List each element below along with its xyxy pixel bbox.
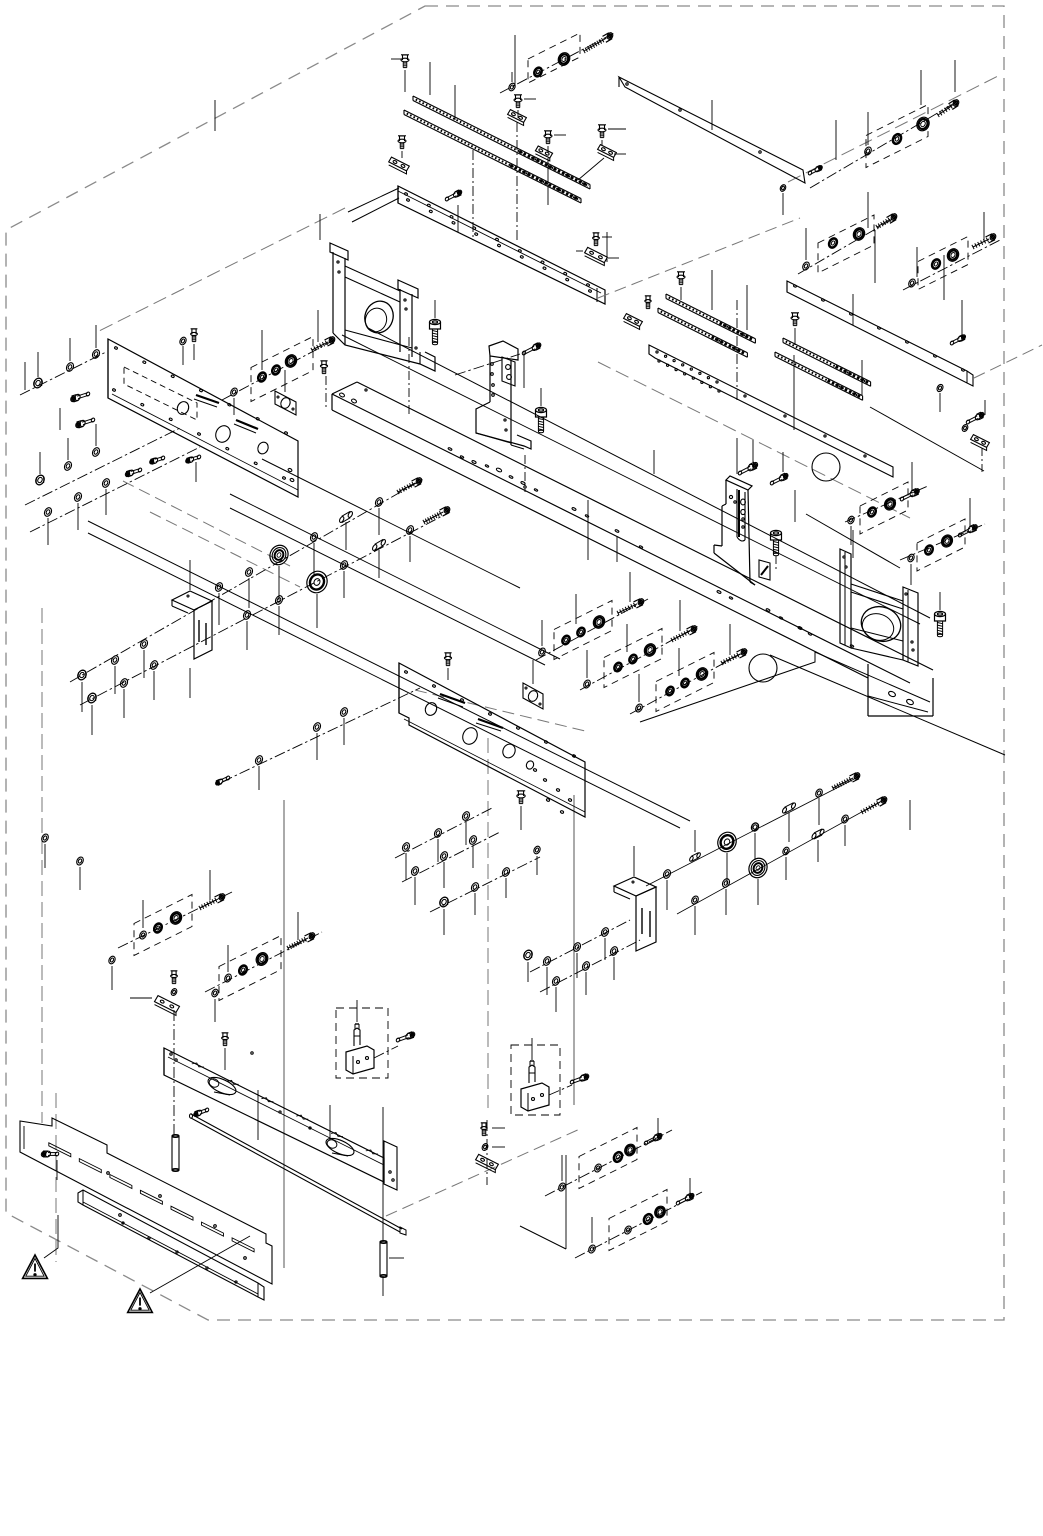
washer bbox=[401, 842, 411, 853]
warning triangle bbox=[23, 1255, 48, 1278]
leader line bbox=[587, 500, 589, 560]
leader line bbox=[984, 400, 986, 415]
phantom line bbox=[415, 690, 585, 731]
screw bbox=[583, 32, 614, 53]
leader line bbox=[434, 300, 436, 318]
washer bbox=[138, 930, 147, 940]
axis line bbox=[630, 649, 750, 714]
leader line bbox=[917, 212, 984, 277]
frame line bbox=[806, 514, 900, 568]
washer bbox=[634, 703, 643, 713]
bushing bbox=[939, 533, 954, 549]
screw bbox=[808, 165, 823, 176]
axis line bbox=[549, 1085, 572, 1095]
screw bbox=[937, 99, 960, 117]
leader line bbox=[943, 255, 945, 300]
frame line bbox=[262, 459, 520, 588]
leader line bbox=[150, 1236, 250, 1293]
shaft rod bbox=[190, 1114, 407, 1235]
clip plate bbox=[476, 1154, 499, 1172]
leader line bbox=[25, 362, 60, 430]
screw bbox=[391, 55, 409, 92]
axis line bbox=[402, 832, 500, 882]
phantom line bbox=[386, 1128, 582, 1216]
screw bbox=[185, 454, 201, 482]
washer bbox=[91, 349, 101, 360]
support rail bbox=[649, 345, 893, 477]
bracket holes bbox=[491, 363, 507, 431]
bushing bbox=[623, 1142, 638, 1157]
slide rail strip bbox=[413, 96, 590, 189]
bushing bbox=[561, 635, 571, 646]
washer bbox=[75, 856, 84, 890]
washer bbox=[609, 946, 619, 957]
bracket hole bbox=[361, 297, 398, 336]
screw bbox=[430, 319, 441, 344]
washer bbox=[43, 507, 53, 518]
frame line bbox=[230, 494, 560, 659]
washer bbox=[600, 927, 610, 938]
main beam bbox=[332, 382, 933, 716]
gasket plate bbox=[275, 391, 296, 415]
front plate bbox=[20, 1118, 272, 1284]
nut bbox=[86, 692, 98, 705]
leader line bbox=[793, 355, 795, 430]
cluster box bbox=[251, 337, 313, 402]
bushing bbox=[254, 951, 270, 968]
cluster box bbox=[604, 629, 662, 688]
screw bbox=[191, 329, 198, 360]
plate hole bbox=[525, 760, 535, 771]
axis line bbox=[580, 625, 700, 690]
screw bbox=[671, 625, 698, 642]
slotted bar bbox=[164, 1048, 397, 1190]
washer bbox=[339, 707, 349, 718]
bushing bbox=[612, 1151, 623, 1163]
washer bbox=[847, 515, 856, 545]
axis line bbox=[575, 1192, 702, 1258]
phantom line bbox=[573, 795, 575, 1105]
leader line bbox=[262, 310, 318, 370]
motor bracket bbox=[840, 549, 918, 666]
cluster box bbox=[511, 1045, 560, 1115]
screw bbox=[517, 791, 525, 830]
axis line bbox=[25, 428, 180, 505]
washer bbox=[214, 582, 224, 593]
washer bbox=[481, 1143, 489, 1152]
bushing bbox=[533, 66, 543, 77]
washer bbox=[309, 532, 319, 543]
slide rail strip bbox=[658, 308, 747, 357]
axis line bbox=[20, 352, 106, 395]
axis line bbox=[325, 376, 327, 409]
axis line bbox=[205, 932, 322, 992]
plate holes bbox=[112, 346, 288, 479]
micro switch bbox=[521, 1061, 549, 1111]
axis line bbox=[530, 920, 630, 972]
bar holes bbox=[170, 1053, 394, 1181]
leader line bbox=[319, 214, 321, 240]
leader line bbox=[40, 424, 96, 474]
warning triangle bbox=[128, 1289, 153, 1312]
screw bbox=[950, 300, 967, 346]
washer bbox=[582, 679, 591, 689]
leader line bbox=[633, 846, 635, 876]
washer bbox=[101, 478, 111, 489]
washer bbox=[274, 595, 284, 606]
leader line bbox=[556, 957, 614, 1012]
leader line bbox=[547, 158, 549, 205]
bracket dots bbox=[843, 556, 914, 651]
leader line bbox=[214, 100, 216, 131]
screw bbox=[677, 272, 685, 300]
leader line bbox=[383, 1107, 404, 1296]
side plate bbox=[108, 339, 298, 497]
rail holes bbox=[656, 351, 866, 457]
leader line bbox=[736, 438, 738, 474]
screw bbox=[287, 932, 316, 950]
washer bbox=[662, 869, 672, 880]
nut bbox=[76, 669, 88, 682]
screw bbox=[70, 391, 91, 402]
leader line bbox=[429, 62, 431, 95]
balloon bbox=[749, 654, 777, 682]
plate slot bbox=[438, 694, 465, 707]
axis line bbox=[516, 122, 518, 240]
axis line bbox=[736, 300, 738, 400]
bushing bbox=[828, 237, 839, 249]
washer bbox=[593, 1163, 602, 1173]
beam holes bbox=[448, 447, 854, 647]
plate holes bbox=[107, 1172, 247, 1260]
leader line bbox=[806, 192, 868, 260]
bushing bbox=[591, 614, 607, 630]
plate slot bbox=[234, 420, 258, 433]
leader line bbox=[48, 489, 106, 545]
bar slot bbox=[324, 1135, 357, 1159]
wire bbox=[348, 188, 399, 212]
bushing bbox=[680, 678, 690, 689]
leader line bbox=[852, 294, 854, 325]
washer bbox=[119, 678, 129, 689]
washer bbox=[690, 895, 699, 905]
axis line bbox=[455, 354, 520, 375]
bushing bbox=[924, 544, 934, 555]
screw bbox=[444, 653, 451, 680]
washer bbox=[782, 846, 791, 856]
screw bbox=[445, 189, 463, 201]
leader line bbox=[795, 462, 912, 522]
leader line bbox=[406, 822, 466, 880]
nut bbox=[438, 896, 450, 909]
frame line bbox=[342, 335, 920, 624]
screw bbox=[481, 1123, 487, 1136]
leader line bbox=[592, 1178, 690, 1243]
screw bbox=[215, 775, 230, 785]
screw bbox=[570, 1073, 590, 1084]
washer bbox=[229, 387, 238, 415]
leader line bbox=[711, 100, 713, 130]
washer bbox=[623, 1225, 632, 1235]
washer bbox=[63, 461, 73, 472]
washer bbox=[179, 336, 188, 365]
motor bracket bbox=[330, 243, 435, 371]
screw bbox=[771, 530, 782, 555]
washer bbox=[907, 278, 916, 288]
washer bbox=[439, 851, 449, 862]
phantom line bbox=[95, 208, 345, 333]
axis line bbox=[222, 688, 420, 782]
washer bbox=[433, 828, 443, 839]
bracket holes bbox=[729, 495, 745, 528]
plate hole bbox=[501, 742, 518, 760]
support rail bbox=[398, 186, 605, 304]
screw bbox=[125, 467, 143, 477]
leader line bbox=[711, 270, 713, 310]
clip plate bbox=[971, 435, 990, 451]
washer bbox=[223, 973, 232, 983]
cluster box bbox=[528, 33, 580, 83]
washer bbox=[581, 961, 591, 972]
washer bbox=[470, 882, 480, 893]
spacer bbox=[339, 511, 354, 523]
leader line bbox=[487, 1120, 505, 1185]
axis line bbox=[536, 599, 648, 660]
leader line bbox=[606, 232, 608, 262]
cluster box bbox=[134, 895, 192, 956]
clip plate bbox=[598, 145, 626, 161]
washer bbox=[936, 383, 944, 412]
leader line bbox=[695, 800, 910, 935]
washer bbox=[244, 567, 254, 578]
clip plate bbox=[389, 157, 410, 174]
washer bbox=[374, 497, 384, 508]
axis line bbox=[30, 447, 200, 532]
plate holes bbox=[404, 670, 576, 813]
phantom line bbox=[788, 74, 1002, 182]
frame line bbox=[520, 1155, 566, 1249]
leader line bbox=[228, 912, 298, 972]
cluster box bbox=[866, 105, 928, 168]
spacer bbox=[689, 852, 701, 862]
cluster box bbox=[554, 601, 612, 660]
washer bbox=[149, 660, 159, 671]
washer bbox=[551, 976, 561, 987]
washer bbox=[508, 72, 517, 92]
screw bbox=[645, 296, 651, 309]
bearing bbox=[267, 542, 292, 568]
washer bbox=[170, 988, 178, 997]
leader line bbox=[547, 938, 605, 995]
axis line bbox=[845, 486, 928, 522]
nut bbox=[522, 949, 534, 982]
clip plate bbox=[155, 996, 180, 1016]
cluster box bbox=[336, 1008, 388, 1078]
axis line bbox=[981, 448, 983, 474]
screw bbox=[900, 488, 921, 502]
plate slot bbox=[476, 719, 503, 731]
frame line bbox=[368, 328, 930, 618]
plate hole bbox=[460, 725, 480, 746]
leader line bbox=[44, 1215, 58, 1258]
leader line bbox=[653, 450, 655, 474]
cluster box bbox=[818, 215, 874, 273]
bushing bbox=[576, 627, 586, 638]
leader line bbox=[82, 650, 144, 712]
support bracket bbox=[714, 476, 770, 585]
plate slots bbox=[49, 1143, 254, 1252]
slide rail strip bbox=[404, 110, 581, 203]
washer bbox=[533, 845, 542, 875]
screw bbox=[514, 95, 536, 118]
screw bbox=[311, 336, 336, 352]
leader line bbox=[56, 1160, 58, 1180]
leader line bbox=[939, 592, 941, 610]
screw bbox=[171, 971, 178, 984]
frame line bbox=[88, 533, 680, 828]
bushing bbox=[694, 666, 710, 682]
axis line bbox=[500, 32, 616, 93]
screw bbox=[972, 233, 997, 249]
clip plate bbox=[576, 247, 619, 265]
screw bbox=[149, 455, 165, 464]
washer bbox=[587, 1244, 596, 1254]
bracket hole dots bbox=[337, 261, 417, 349]
bushing bbox=[271, 364, 281, 375]
pin bbox=[380, 1241, 387, 1278]
bushing bbox=[931, 258, 942, 270]
phantom window bbox=[124, 367, 197, 420]
washer bbox=[91, 447, 101, 458]
axis line bbox=[798, 216, 898, 274]
pin bbox=[172, 1135, 179, 1172]
cluster box bbox=[609, 1190, 667, 1251]
axis line bbox=[395, 808, 492, 858]
cluster box bbox=[579, 1128, 637, 1189]
screw bbox=[193, 1107, 209, 1117]
washer bbox=[254, 755, 264, 766]
pulley bbox=[303, 568, 331, 597]
frame line bbox=[770, 655, 1005, 755]
bracket hole bbox=[856, 601, 905, 647]
washer bbox=[961, 424, 969, 433]
washer bbox=[65, 362, 75, 373]
washer bbox=[907, 553, 916, 585]
screw bbox=[598, 125, 626, 146]
axis line bbox=[524, 455, 526, 492]
frame line bbox=[640, 652, 930, 722]
washer bbox=[339, 560, 349, 571]
leader line bbox=[258, 1090, 330, 1140]
bearing bbox=[746, 855, 771, 881]
bushing bbox=[556, 51, 572, 68]
spacer bbox=[811, 829, 825, 840]
leader line bbox=[92, 671, 154, 735]
washer bbox=[542, 956, 552, 967]
plate hole bbox=[256, 440, 294, 482]
leader line bbox=[224, 1048, 226, 1070]
washer bbox=[108, 955, 117, 990]
bushing bbox=[642, 1213, 653, 1225]
washer bbox=[211, 988, 220, 1022]
plate hole bbox=[423, 701, 438, 717]
phantom line bbox=[41, 608, 43, 1123]
screw bbox=[935, 611, 946, 636]
phantom line bbox=[283, 800, 285, 1268]
leader line bbox=[540, 388, 542, 406]
screw bbox=[396, 1031, 416, 1042]
leader line bbox=[457, 205, 459, 232]
cluster box bbox=[219, 936, 281, 1001]
plate hole bbox=[213, 423, 233, 444]
leader line bbox=[920, 70, 922, 105]
washer bbox=[461, 811, 471, 822]
screw bbox=[199, 893, 226, 910]
washer bbox=[110, 655, 120, 666]
frame line bbox=[870, 407, 984, 471]
bushing bbox=[642, 642, 658, 658]
leader line bbox=[542, 572, 630, 646]
clip plate bbox=[624, 314, 643, 330]
rail holes bbox=[404, 192, 592, 292]
washer bbox=[557, 1182, 566, 1192]
leader line bbox=[746, 285, 748, 330]
washer bbox=[405, 525, 415, 536]
leader line bbox=[189, 560, 191, 590]
nut bbox=[32, 377, 44, 390]
balloon bbox=[812, 453, 840, 481]
leader line bbox=[189, 668, 191, 698]
beam end holes bbox=[339, 389, 367, 404]
leader line bbox=[143, 870, 210, 928]
screw bbox=[966, 412, 985, 425]
screw bbox=[958, 524, 979, 538]
leader line bbox=[532, 660, 534, 684]
screw bbox=[397, 477, 423, 494]
slide rail strip bbox=[783, 338, 871, 386]
leader line bbox=[578, 158, 604, 180]
bar slot bbox=[206, 1074, 239, 1098]
washer bbox=[814, 788, 823, 798]
screw bbox=[536, 407, 547, 432]
screw bbox=[40, 1150, 59, 1157]
leader line bbox=[247, 536, 410, 650]
washer bbox=[139, 639, 149, 650]
bushing bbox=[257, 371, 267, 382]
leader line bbox=[444, 878, 506, 935]
leader line bbox=[415, 846, 473, 905]
support bracket bbox=[476, 341, 531, 449]
bushing bbox=[613, 662, 623, 673]
leader line bbox=[587, 600, 680, 678]
screw bbox=[770, 452, 789, 486]
screw bbox=[593, 233, 612, 246]
leader line bbox=[835, 120, 837, 160]
axis line bbox=[677, 798, 887, 914]
clip plate bbox=[508, 110, 527, 126]
nut bbox=[34, 474, 46, 487]
spacer bbox=[372, 539, 387, 551]
bushing bbox=[653, 1204, 668, 1219]
leader line bbox=[616, 536, 618, 562]
axis line bbox=[540, 940, 640, 992]
screw bbox=[222, 1033, 254, 1054]
leader line bbox=[562, 1118, 658, 1181]
cluster box bbox=[656, 653, 714, 712]
washer bbox=[572, 942, 582, 953]
leader line bbox=[219, 508, 379, 625]
leader line bbox=[284, 370, 286, 392]
